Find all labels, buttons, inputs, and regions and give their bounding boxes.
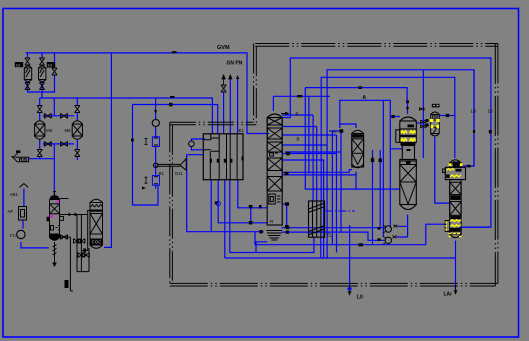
K2 internals box <box>269 194 281 204</box>
svg-text:AF: AF <box>8 209 14 214</box>
wire K4 feed from left <box>426 224 446 245</box>
K3 condenser housing <box>396 129 417 143</box>
valve below E8B <box>39 83 44 90</box>
svg-text:AB1: AB1 <box>10 192 19 197</box>
column K1 side stub right <box>60 217 64 221</box>
feed dots left of K2 <box>249 205 253 208</box>
wire compressor line x154 <box>155 98 157 120</box>
K2 X box4 <box>267 158 282 171</box>
flange dot left of C3 <box>340 129 344 132</box>
E3 left flange squares <box>426 119 429 122</box>
wire K2 bottom right lines <box>282 227 386 229</box>
column C2 neck band black <box>90 210 103 212</box>
wire K3 top stub <box>407 102 409 114</box>
blue dash-dot instrument line y211 <box>325 210 355 212</box>
column C2 top zigzag band <box>91 205 103 208</box>
valve on K1 drain line <box>61 235 68 240</box>
label tag E8B <box>47 62 55 68</box>
column K1 side box left <box>47 217 50 222</box>
valve above E8A <box>25 58 30 65</box>
valve below MS-B <box>75 150 80 157</box>
arrow glyph2 on y214 line <box>75 213 78 217</box>
wire E1 inlet U-bend <box>191 139 205 141</box>
pump P1 <box>385 226 391 232</box>
column C2 body <box>90 199 103 248</box>
wire drum A bottom valve <box>39 139 41 150</box>
svg-text:FC: FC <box>10 233 17 238</box>
K1 top right stub <box>60 198 69 200</box>
svg-text:L0: L0 <box>357 295 363 301</box>
column K1 X packing <box>50 204 60 214</box>
K4 X box2 <box>450 202 461 216</box>
column K1 bottom black <box>50 234 59 241</box>
valve on drum bottom manifold right <box>61 142 68 147</box>
LO crossing arrow <box>348 287 351 295</box>
K3 condenser bottom black band <box>401 143 416 146</box>
K2 X box3 <box>267 142 282 152</box>
valve glyphs left of E3 <box>420 108 425 111</box>
wire filter top drops <box>27 53 29 58</box>
right product line 1 <box>473 70 475 166</box>
crude argon column K3 <box>400 117 417 210</box>
pure argon column K4 <box>445 160 465 238</box>
wire top main GVM header <box>26 53 269 134</box>
K2 X box2 <box>267 128 282 139</box>
valve above MS-A <box>37 106 42 113</box>
adsorber C3 <box>352 130 364 168</box>
wire C3 side stub <box>329 130 341 132</box>
wire NE bracket C <box>321 77 455 201</box>
K2 X box5 <box>267 177 282 192</box>
column K1 magenta band <box>50 215 53 218</box>
wire K2 right stubs <box>282 114 313 116</box>
argon condenser E3 <box>431 112 440 136</box>
K4 top tick <box>467 165 471 168</box>
E3 motor box on top <box>432 104 440 108</box>
valve on drum top manifold right <box>61 113 68 118</box>
black piping K1 bottom right <box>60 215 90 292</box>
K4 condenser yellow bottom <box>450 175 461 177</box>
boundary battery-limit black double dash-dot lines <box>170 44 498 287</box>
valve on GN1 <box>221 85 226 92</box>
wire drum top manifold <box>43 98 54 116</box>
wire drum B top <box>76 98 78 106</box>
pump discharge valve glyphs <box>394 225 398 228</box>
wire blower to K1 <box>21 242 49 248</box>
wire NE bracket D <box>305 88 400 190</box>
turbine E11 cone <box>180 159 186 171</box>
wire E3 right line <box>439 115 455 117</box>
flow tick on y244.7 <box>359 243 364 246</box>
E3 yellow bands <box>430 119 433 122</box>
column K1 magenta tick upper <box>57 201 60 203</box>
svg-text:M5: M5 <box>46 128 53 133</box>
wire K3 bottom outlet <box>407 215 409 237</box>
valve on x54.5 riser <box>52 68 57 75</box>
wire C3 top pipe <box>340 124 356 128</box>
K2 top stub black arrow <box>281 112 288 114</box>
wire y104.5 loop <box>133 105 218 134</box>
wire verticals below E1 <box>210 180 212 232</box>
wire bottom y258 extension <box>321 257 456 259</box>
svg-text:E1: E1 <box>239 128 245 133</box>
wire filter bottoms <box>28 75 55 92</box>
orifice circle on feed <box>216 201 220 205</box>
wire manifold y98 <box>40 98 213 134</box>
subcooler E2 block <box>309 201 325 237</box>
arrow glyph on y214 line <box>69 213 72 217</box>
valve pair lower <box>78 253 85 258</box>
K4 condenser yellow top <box>447 169 455 171</box>
arrow GN2 <box>229 75 232 79</box>
K2 bottom dome hatched <box>267 231 283 241</box>
K4 reboiler black <box>450 228 460 232</box>
wire bottom long y244.7 <box>255 232 426 245</box>
K2 C glyph band <box>270 153 279 156</box>
K3 cone section <box>400 182 417 204</box>
K4 reboiler left tab <box>445 221 450 232</box>
K2 top section band <box>267 118 282 126</box>
svg-text:B: B <box>297 137 300 142</box>
glyph left of S2 <box>145 177 148 184</box>
K3 top arrow dot <box>406 101 409 104</box>
wire K3 right condenser stubs <box>416 122 423 124</box>
valve on drum bottom manifold left <box>44 142 51 147</box>
svg-text:A: A <box>363 95 367 101</box>
junction circle <box>154 163 158 167</box>
blower FC circle <box>17 230 25 238</box>
LAr crossing arrow <box>454 286 457 294</box>
svg-text:EL: EL <box>327 233 333 238</box>
boundary bottom horizontal <box>170 283 498 286</box>
K3 condenser mid black bar <box>401 135 416 137</box>
svg-text:E8: E8 <box>16 63 21 67</box>
arrow GN1 <box>222 75 225 85</box>
column C2 X packing <box>90 214 103 235</box>
wire drum B bottom valve <box>76 139 78 150</box>
cooler S1 <box>152 137 159 147</box>
valve above MS-B <box>75 106 80 113</box>
wire bundle verticals <box>308 96 310 173</box>
boundary left vertical upper <box>254 44 257 124</box>
wire y96.3 header <box>273 95 330 97</box>
wire drum A top <box>39 98 41 106</box>
wire E3 left stubs <box>423 120 428 122</box>
svg-text:E11: E11 <box>175 171 183 176</box>
C3 top black band <box>353 134 363 137</box>
valve on drum top manifold left <box>44 113 51 118</box>
wire vertical x111.4 long <box>104 53 111 248</box>
flow tick on GVM line <box>172 51 177 53</box>
column K1 top cap black <box>50 195 59 199</box>
column C2 left pipe <box>85 211 90 251</box>
wire x390 continuation <box>389 149 391 228</box>
wire LO product <box>349 225 351 294</box>
mole sieve drum MS-B <box>72 121 82 140</box>
wire pump feed vertical <box>382 100 384 237</box>
intake duct <box>23 189 25 207</box>
svg-text:GN PN: GN PN <box>227 61 243 67</box>
wire bottom y258 <box>225 237 321 258</box>
svg-text:M6: M6 <box>65 128 72 133</box>
K3 top band with square <box>400 161 417 165</box>
column K1 body <box>50 197 60 241</box>
turbine shaft <box>158 164 180 166</box>
svg-text:B: B <box>296 112 299 117</box>
boundary top horizontal <box>255 44 498 47</box>
K4 black band2 <box>450 216 460 219</box>
pump P2 <box>385 237 391 243</box>
wire verticals into E1 top <box>223 93 225 134</box>
tick on line2 <box>489 130 492 133</box>
E3 right line flange <box>446 114 449 117</box>
wire line y176.6 <box>282 174 356 176</box>
K3 X section <box>400 165 417 183</box>
wire NE bracket B <box>327 70 474 258</box>
column K1 drain hatched <box>53 242 57 266</box>
flow dot on y104.5 <box>169 103 173 107</box>
intake chevron <box>19 184 28 188</box>
cooler S2 <box>152 176 159 186</box>
wire C3 A-line <box>340 100 403 149</box>
wire long line y173.5 <box>282 170 352 173</box>
compressor flow arrow on x154 <box>154 110 157 114</box>
flow tick on y96.3 <box>297 95 302 97</box>
mole sieve drum MS-A <box>35 121 45 140</box>
duct AF to blower <box>22 220 24 229</box>
flow tick on y98 <box>170 96 175 98</box>
K3 left dome stub <box>390 116 400 118</box>
wire NE bracket A <box>282 58 491 227</box>
svg-text:1a: 1a <box>332 129 337 134</box>
K4 bottom yellow ticks <box>449 234 462 237</box>
arrow near S2 <box>142 187 146 190</box>
boundary center vertical <box>170 122 173 284</box>
wire E3 bottom drop <box>435 137 450 203</box>
wire K2 top vapor <box>272 96 274 111</box>
K4 black band mid <box>450 195 460 200</box>
main exchanger E1 block <box>203 134 243 180</box>
wire LAr product <box>455 241 457 293</box>
valves right of K3 dome <box>421 120 426 123</box>
wire C3 bottom drop <box>355 172 357 190</box>
K4 dome black fill <box>453 162 460 168</box>
column K1 internals mid <box>51 226 60 231</box>
wire adsorber outlet verticals <box>372 150 374 245</box>
svg-text:FOC: FOC <box>92 240 102 245</box>
tick on line1 <box>473 130 475 133</box>
filter vessel E8B <box>39 66 46 82</box>
wire K4 bottom reboiler line <box>459 226 491 228</box>
wire drum bottom manifold <box>43 143 74 145</box>
valve pair on x77 x81 <box>74 239 81 244</box>
K2 bottom stub squares <box>286 226 289 229</box>
K3 condenser coils yellow <box>401 131 416 141</box>
boundary right vertical <box>495 44 498 287</box>
vent funnel bottom-left of drums <box>12 157 28 162</box>
arrow C2 drain <box>83 248 86 253</box>
svg-text:B1: B1 <box>159 171 165 176</box>
air filter AF <box>19 207 27 221</box>
main column K2 shell <box>267 114 282 225</box>
K4 left tab <box>443 169 446 173</box>
E1 passage dots <box>210 159 212 163</box>
valve below E8A <box>25 83 30 90</box>
arrow up on x372 <box>371 156 374 160</box>
compressor circle <box>152 119 159 126</box>
C3 bottom cone <box>352 153 364 164</box>
label tag E8A <box>15 62 23 67</box>
column K1 top stub <box>53 192 56 197</box>
K3 neck tick <box>407 149 411 151</box>
svg-text:GVM: GVM <box>217 45 230 51</box>
E1 internal passage lines <box>203 134 237 180</box>
arrow PN <box>236 75 239 79</box>
wire vertical x132.5 to S2 <box>133 105 159 206</box>
flange square on x132.5 line <box>131 139 134 142</box>
C3 X packing <box>352 139 364 154</box>
K4 lower yellow coils <box>450 220 461 222</box>
pump labels <box>378 227 381 230</box>
valve above E8B <box>39 58 44 65</box>
boundary middle horizontal <box>170 122 256 125</box>
K3 top black band <box>408 125 415 128</box>
K2 stub flange squares <box>286 152 290 155</box>
drain pot black <box>65 280 69 288</box>
valve below MS-A <box>37 150 42 157</box>
svg-text:1B: 1B <box>471 109 477 114</box>
filter vessel E8A <box>24 66 31 82</box>
svg-text:LAr: LAr <box>444 292 453 298</box>
K4 X box1 <box>450 182 461 194</box>
wire bottom y252.5 <box>230 237 314 252</box>
glyph left of S1 <box>145 138 148 145</box>
inlet filter circle on U-bend <box>189 141 195 147</box>
column C2 label FOC box <box>91 239 103 245</box>
flange squares below C3 <box>371 159 374 163</box>
svg-text:1b: 1b <box>488 109 494 114</box>
svg-text:E8: E8 <box>48 64 53 68</box>
